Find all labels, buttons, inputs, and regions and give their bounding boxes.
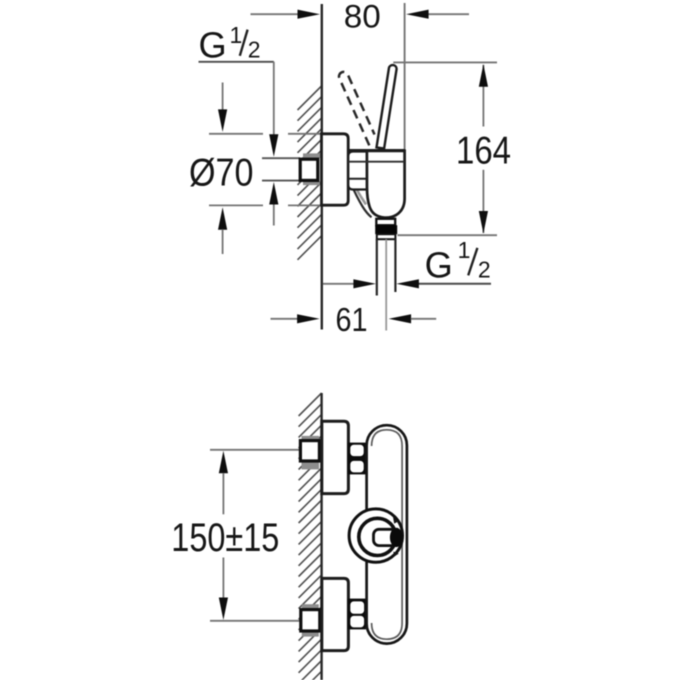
svg-text:2: 2 xyxy=(248,37,261,63)
svg-text:G: G xyxy=(425,244,453,285)
svg-text:164: 164 xyxy=(456,129,511,172)
svg-text:G: G xyxy=(199,25,227,66)
svg-text:1: 1 xyxy=(458,237,471,263)
svg-text:61: 61 xyxy=(336,302,368,339)
svg-text:80: 80 xyxy=(344,0,381,35)
svg-text:1: 1 xyxy=(230,22,243,48)
svg-text:Ø70: Ø70 xyxy=(189,151,254,194)
svg-text:2: 2 xyxy=(478,256,491,282)
svg-text:150±15: 150±15 xyxy=(171,516,279,560)
